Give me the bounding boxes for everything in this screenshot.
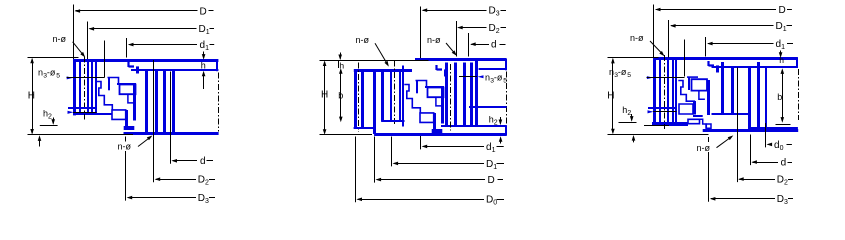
bottom junction ledge 3	[693, 115, 703, 117]
raceway upper left wall	[108, 78, 110, 91]
n3 leader arrow 2	[478, 75, 484, 78]
n-phi bottom leader	[138, 137, 151, 147]
dim D3 line top	[423, 10, 487, 12]
bottom junction bar	[124, 126, 135, 130]
inner ring2 raceway wall b	[402, 66, 404, 127]
bottom junction column 3	[693, 101, 696, 115]
grease hole leader arrow 3	[648, 110, 654, 113]
svg-text:h: h	[339, 61, 344, 71]
svg-text:n-ø: n-ø	[630, 33, 644, 43]
grease hole centerline	[73, 112, 97, 114]
junction column m	[433, 113, 436, 133]
dim D2 line	[156, 179, 196, 181]
inner assembly top surface 2	[354, 69, 412, 72]
inner ring3 bolt hole wall left	[659, 60, 661, 123]
svg-text:h: h	[779, 55, 784, 65]
svg-text:h: h	[201, 60, 206, 70]
raceway insert block 3	[692, 79, 708, 90]
dim D3 extension line top	[420, 7, 422, 59]
raceway zigzag wall	[96, 82, 112, 111]
inner ring2 bolt hole wall right	[399, 70, 401, 122]
outer ring3 bolt hole column 2	[731, 68, 734, 114]
dim h upper arrow	[203, 52, 205, 59]
right ring bolt hole column 3	[463, 63, 466, 126]
dim D1 extension line 3	[668, 20, 670, 58]
raceway step m	[416, 81, 427, 88]
inner ring raceway wall line a	[91, 61, 93, 114]
flange lip stub	[136, 66, 139, 73]
inner ring3 bottom underline	[644, 125, 669, 127]
grease hole centerline 3	[653, 111, 677, 113]
dim d0 line 3	[768, 144, 772, 146]
dim D extension line 3	[653, 5, 655, 58]
dim D extension line 2	[374, 137, 376, 183]
seal lip top	[129, 62, 135, 67]
dim H top extension line	[28, 57, 79, 59]
dim h2 upper arrow	[53, 118, 55, 124]
bottom foot window 3	[706, 124, 711, 128]
dim h2 upper extension line 3	[619, 122, 637, 124]
outer ring bolt hole column 4	[172, 71, 175, 133]
svg-text:D: D	[200, 6, 207, 17]
dim b line 2	[340, 70, 342, 119]
svg-text:D: D	[779, 5, 786, 16]
dim d1 line	[129, 44, 197, 46]
raceway wall column m	[441, 87, 444, 124]
dim d extension line	[170, 72, 172, 164]
dim D3 line	[128, 197, 196, 199]
svg-text:n-ø: n-ø	[427, 35, 441, 45]
dim D2 extension line 3	[737, 68, 739, 183]
dim H line 2	[324, 62, 326, 133]
grease hole wall line 3	[648, 107, 677, 109]
axis centerline right	[506, 72, 508, 125]
dim D3 extension line	[125, 137, 127, 142]
outer ring bolt hole column 1	[145, 71, 148, 133]
seal lip top 3	[709, 61, 715, 66]
ring1 top surface line	[73, 59, 218, 62]
inner ring3 raceway wall a	[672, 60, 674, 123]
outer ring bolt hole column 3	[163, 71, 166, 133]
svg-text:-ø: -ø	[618, 67, 627, 77]
svg-text:d: d	[200, 156, 206, 167]
svg-text:-ø: -ø	[47, 67, 56, 77]
svg-text:d: d	[781, 158, 787, 169]
n-phi top leader 3	[650, 41, 663, 55]
dim D line 3	[656, 9, 776, 11]
inner ring3 bolt hole centerline	[664, 55, 666, 129]
ring2 top band surface	[415, 58, 507, 61]
inner ring2 bolt hole wall left	[390, 70, 392, 122]
raceway zigzag wall m	[404, 85, 420, 114]
inner ring bolt hole wall right	[87, 61, 89, 114]
bottom foot profile 3	[700, 119, 707, 128]
n-phi bottom leader 3	[717, 137, 732, 148]
n-phi top-right leader	[446, 43, 456, 54]
ring3 top surface line	[654, 57, 798, 60]
raceway wall m	[416, 81, 418, 94]
outer ring3 bolt hole column 3	[748, 68, 751, 128]
notch rect m	[420, 113, 434, 123]
step line right 2	[469, 106, 507, 108]
dim H bottom extension line	[28, 134, 134, 136]
dim d0 extension line 3	[765, 123, 767, 147]
raceway upper step	[108, 78, 119, 85]
n3 hole centerline	[67, 77, 105, 79]
raceway right wall column	[133, 84, 136, 121]
svg-text:b: b	[338, 90, 343, 100]
dim d1 line 2	[423, 146, 484, 148]
inner ring raceway wall line b	[95, 61, 97, 114]
raceway insert block m	[428, 88, 444, 98]
n-phi top-left leader	[375, 43, 388, 65]
flange lip stub m	[444, 69, 447, 76]
dim b line 3	[782, 70, 784, 121]
n3 leader arrow	[67, 76, 73, 79]
outer ring3 bottom face right	[748, 127, 798, 129]
raceway zigzag wall 3	[678, 81, 694, 105]
dim d1 line 3	[708, 43, 774, 45]
dim D1 extension line 2	[391, 137, 393, 167]
dim d1 extension line 3	[705, 37, 707, 57]
raceway right wall column 3	[707, 80, 710, 115]
right ring bolt hole column 1	[445, 63, 448, 126]
inner ring3 left edge	[653, 58, 656, 126]
inner ring bolt hole centerline	[84, 57, 86, 120]
dim D2 line top	[458, 27, 486, 29]
raceway lower hook	[128, 94, 134, 103]
dim h bracket 2	[338, 60, 340, 68]
bottom mounting surface	[374, 133, 507, 136]
dim d line top	[471, 44, 489, 46]
outer ring3 bore step line	[712, 113, 749, 115]
inner ring bottom notch rect	[112, 110, 126, 120]
outer ring bottom surface	[124, 132, 219, 135]
dim d1 extension line 2	[420, 136, 422, 149]
dim D line	[76, 10, 198, 12]
dim d line	[173, 160, 197, 162]
dim b lower extension 3	[776, 124, 791, 126]
right ring right wall	[475, 61, 478, 126]
dim H top extension line 2	[320, 60, 429, 62]
gear pitch centerline	[358, 63, 360, 133]
bottom junction column	[125, 110, 128, 130]
raceway mid line	[117, 83, 136, 85]
svg-text:-ø: -ø	[494, 72, 503, 82]
dim d extension line 3	[750, 135, 752, 166]
retaining plate bottom 3	[703, 129, 799, 132]
dim D3 line 3	[711, 198, 775, 200]
svg-text:n-ø: n-ø	[356, 35, 370, 45]
right ring bolt hole column 2	[454, 63, 457, 126]
gear tooth root line	[361, 70, 364, 128]
right ring bottom lip line	[441, 125, 507, 127]
dim h lower arrow	[203, 73, 205, 90]
inner ring2 left edge	[381, 70, 384, 122]
inner ring2 step wall	[373, 70, 376, 134]
dim h2 upper extension line	[40, 125, 58, 127]
dim d extension line top	[468, 33, 470, 57]
raceway cluster m (translated copy of view1 cluster)	[404, 65, 445, 133]
outer ring axis centerline	[218, 73, 220, 132]
raceway hook m	[436, 97, 442, 106]
right edge bottom	[505, 125, 507, 135]
right ring bolt hole column 4	[470, 63, 473, 126]
inner ring3 bottom notch rect	[679, 104, 693, 114]
ring1 right flange recess line	[131, 69, 218, 71]
raceway upper step 3	[687, 76, 698, 78]
dim d line 3	[753, 162, 779, 164]
n3 hole centerline 2	[459, 76, 477, 78]
seal hole depth line	[104, 41, 106, 78]
inner ring2 bolt hole centerline	[394, 61, 396, 127]
flange lip stub 3	[716, 65, 719, 72]
svg-text:b: b	[777, 92, 782, 102]
svg-text:H: H	[321, 90, 328, 101]
svg-text:n-ø: n-ø	[118, 142, 132, 152]
dim D line 2	[377, 179, 485, 181]
n-phi top leader	[73, 42, 84, 56]
ledge line b-bottom	[382, 120, 405, 122]
axis centerline right 3	[798, 69, 800, 120]
dim D0 extension line 2	[355, 137, 357, 203]
dim d1 extension line	[126, 38, 128, 58]
dim H line	[32, 60, 34, 133]
svg-text:5: 5	[627, 72, 631, 79]
seal lip bottom m	[437, 65, 443, 70]
svg-text:H: H	[28, 90, 35, 101]
dim h2 upper arrow 3	[631, 114, 633, 120]
bottom window rect 3	[688, 119, 700, 123]
dim D2 extension line top	[456, 21, 458, 57]
raceway lower hook 3	[699, 91, 705, 100]
ring3 flange right edge	[796, 58, 798, 68]
dim D extension line	[73, 5, 75, 60]
dim H line 3	[612, 60, 614, 133]
dim D1 line 3	[671, 25, 774, 27]
seal hole depth line 3	[684, 40, 686, 77]
dim h2 lower arrow 3	[633, 137, 635, 143]
dim H bottom extension line 3	[608, 134, 709, 136]
inner ring left edge	[73, 59, 76, 116]
dim D1 line	[90, 28, 197, 30]
gear tooth tip line	[354, 70, 357, 128]
dim D1 line 2	[394, 163, 484, 165]
grease hole leader arrow	[68, 111, 74, 114]
dim D2 extension line	[153, 60, 155, 182]
svg-text:d: d	[491, 40, 497, 51]
outer ring3 bolt hole column 1	[721, 62, 724, 114]
ring2 right edge top	[505, 59, 507, 70]
dim h2 lower arrow 2	[500, 138, 502, 144]
dim D3 extension line 3	[708, 137, 710, 142]
grease hole wall line	[68, 107, 97, 109]
ring2 recess line right	[479, 68, 507, 70]
svg-text:D: D	[488, 175, 495, 186]
svg-text:5: 5	[56, 72, 60, 79]
dim h upper arrow 3	[780, 51, 782, 57]
raceway mid line m	[425, 86, 444, 88]
n3 hole centerline 3	[647, 77, 685, 79]
right ring bolt hole centerline	[450, 64, 452, 131]
dim h2 upper arrow 2	[500, 117, 502, 124]
inner ring3 raceway wall b	[675, 60, 677, 123]
dim H bottom extension line 2	[320, 134, 373, 136]
n3 leader arrow 3	[647, 76, 653, 79]
dim h2 lower arrow	[39, 137, 41, 146]
outer ring3 inner wall column	[765, 68, 767, 128]
inner ring3 bolt hole wall right	[667, 60, 669, 123]
svg-text:H: H	[607, 91, 614, 102]
ring1 right flange right edge	[216, 59, 218, 71]
dim D1 extension line	[87, 22, 89, 60]
dim H top extension line 3	[608, 57, 659, 59]
outer ring bolt hole column 2	[155, 71, 158, 133]
svg-text:n-ø: n-ø	[697, 143, 711, 153]
svg-text:n-ø: n-ø	[53, 34, 67, 44]
raceway insert block	[120, 85, 136, 95]
inner ring bolt hole wall left	[79, 61, 81, 114]
svg-text:5: 5	[503, 77, 507, 84]
geared ring bottom left	[354, 127, 375, 129]
inner ring bottom surface	[73, 113, 111, 115]
ring3 flange recess line	[712, 66, 798, 68]
outer ring3 bolt hole column 4	[757, 62, 760, 128]
dim D0 line 2	[358, 199, 484, 201]
dim h upper arrow 2	[340, 53, 342, 59]
junction bar m	[432, 129, 443, 133]
raceway upper wall 3	[688, 77, 690, 90]
inner ring3 bottom bar	[652, 122, 688, 126]
dim D2 line 3	[739, 179, 775, 181]
